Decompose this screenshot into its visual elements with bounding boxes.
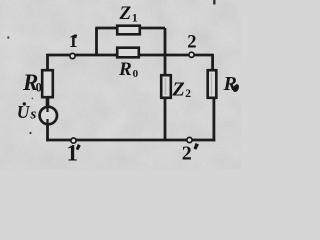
wire: right branch vertical, bottom corner up to Rf box [212, 98, 215, 141]
wire: upper parallel branch horizontal through Z1 [95, 27, 165, 30]
node 2 (top-right terminal, open circle) [189, 52, 194, 57]
svg-text:R: R [118, 59, 132, 80]
scan speck above Us label [32, 98, 34, 100]
svg-text:Z: Z [119, 3, 132, 24]
svg-text:2: 2 [185, 88, 191, 100]
scan speck top-left [7, 36, 9, 38]
node 1'' (bottom-left terminal, open circle) [71, 138, 76, 143]
node 2' (bottom-right terminal, open circle) [187, 137, 192, 142]
resistor R0 (series box on main conductor) [117, 48, 139, 58]
impedance Z2 (vertical box) [161, 75, 171, 98]
wire: left branch vertical, top corner down to R0 box [46, 54, 49, 70]
svg-text:2: 2 [182, 143, 192, 165]
scan tick top edge [213, 0, 215, 5]
wire: left branch vertical, source Us to bottom corner [46, 123, 49, 141]
scan speck bottom-left [29, 132, 31, 134]
svg-text:1: 1 [67, 141, 79, 166]
resistor Rf (load, vertical box at right edge) [208, 70, 217, 98]
wire: left branch vertical, R0 box to source Us [46, 97, 50, 108]
wire: main top conductor from left corner to right corner [46, 54, 213, 57]
wire: stub from top conductor up to parallel Z1 branch [95, 28, 98, 56]
wire: right branch vertical, Rf box up to top conductor [211, 54, 214, 70]
voltage source Us (circle) [40, 107, 57, 124]
resistor R0 (source internal, vertical box) [42, 70, 53, 97]
svg-text:s: s [30, 107, 37, 123]
impedance Z1 (box on upper branch) [117, 26, 140, 35]
svg-text:2: 2 [187, 32, 196, 52]
svg-text:1: 1 [69, 31, 78, 51]
svg-text:Z: Z [172, 79, 185, 101]
node 1' (top-left terminal, open circle) [70, 53, 75, 58]
svg-text:0: 0 [133, 68, 139, 80]
wire: bottom return conductor [46, 139, 215, 142]
wire: junction drop from Z1 branch through node to Z2 and bottom [164, 28, 167, 140]
svg-text:0: 0 [36, 80, 42, 94]
svg-text:1: 1 [132, 11, 138, 25]
